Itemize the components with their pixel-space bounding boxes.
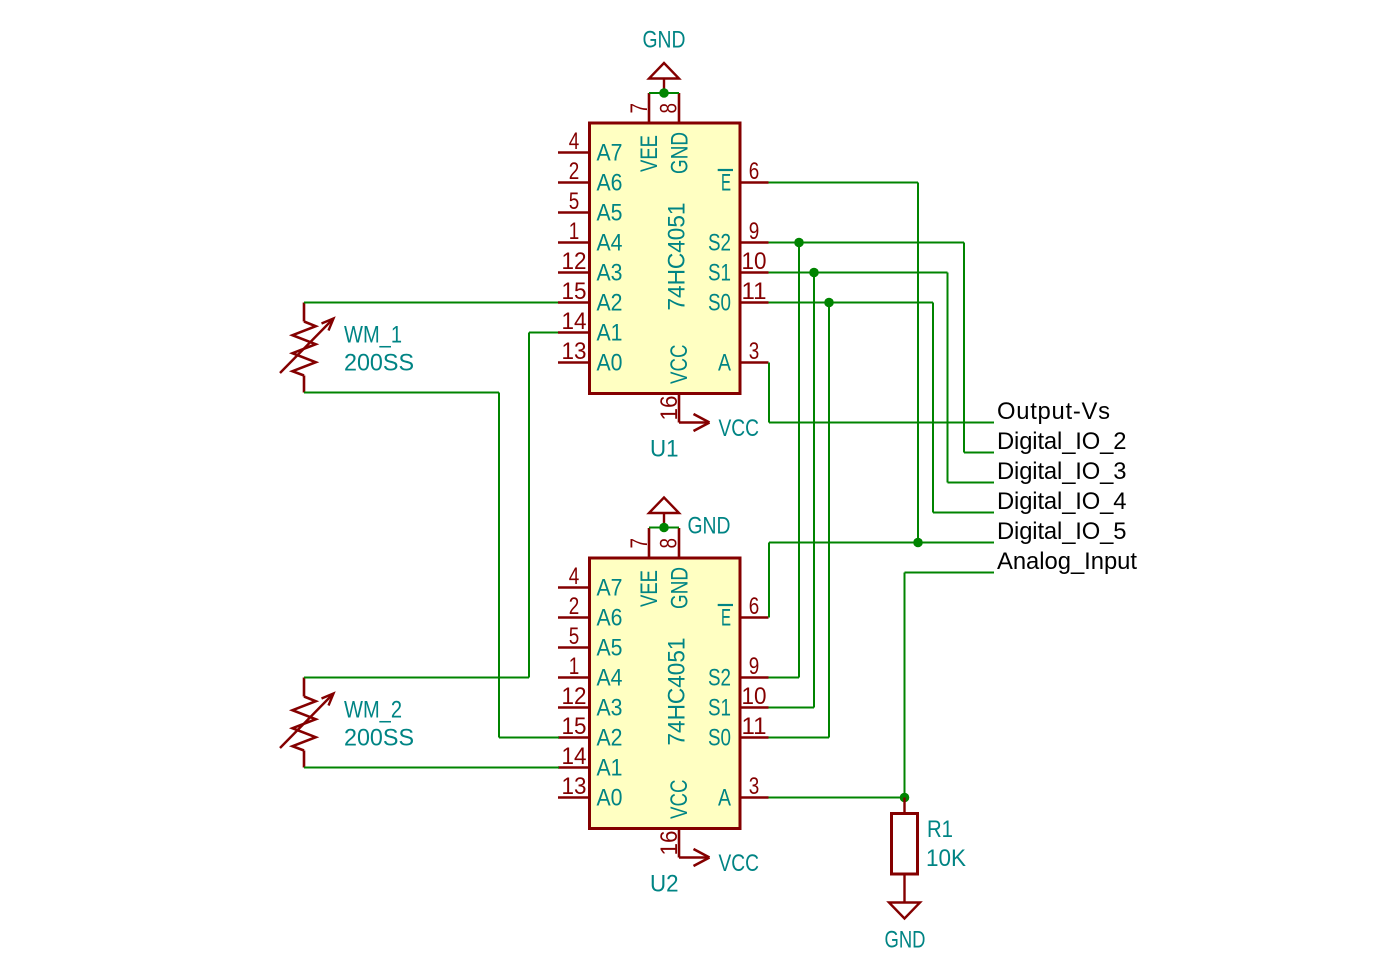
svg-text:15: 15 (562, 714, 587, 740)
svg-text:U1: U1 (650, 437, 679, 463)
svg-text:14: 14 (562, 744, 587, 770)
svg-text:VCC: VCC (719, 416, 760, 442)
svg-text:A6: A6 (597, 606, 623, 632)
svg-text:S2: S2 (708, 231, 731, 257)
svg-text:A3: A3 (597, 261, 623, 287)
svg-text:A2: A2 (597, 291, 623, 317)
svg-text:R1: R1 (927, 817, 953, 843)
svg-text:16: 16 (657, 396, 683, 421)
svg-text:12: 12 (562, 249, 587, 275)
svg-text:A0: A0 (597, 786, 623, 812)
svg-text:A7: A7 (597, 576, 623, 602)
svg-text:VEE: VEE (637, 570, 663, 607)
svg-text:VEE: VEE (637, 135, 663, 172)
svg-text:VCC: VCC (667, 345, 693, 385)
svg-text:U2: U2 (650, 872, 679, 898)
svg-text:GND: GND (688, 514, 731, 540)
svg-text:E: E (721, 606, 731, 632)
svg-text:6: 6 (749, 594, 760, 620)
svg-text:14: 14 (562, 309, 587, 335)
svg-text:7: 7 (627, 538, 653, 549)
svg-text:A7: A7 (597, 141, 623, 167)
svg-text:2: 2 (569, 159, 580, 185)
svg-text:Digital_IO_2: Digital_IO_2 (997, 428, 1127, 455)
svg-text:Digital_IO_4: Digital_IO_4 (997, 488, 1127, 515)
svg-text:12: 12 (562, 684, 587, 710)
svg-text:2: 2 (569, 594, 580, 620)
svg-text:10K: 10K (926, 846, 966, 872)
svg-text:S1: S1 (708, 696, 731, 722)
svg-text:10: 10 (742, 249, 767, 275)
svg-text:A0: A0 (597, 351, 623, 377)
svg-text:10: 10 (742, 684, 767, 710)
svg-text:GND: GND (643, 28, 686, 54)
svg-text:13: 13 (562, 339, 587, 365)
svg-text:A5: A5 (597, 636, 623, 662)
svg-text:A1: A1 (597, 756, 623, 782)
svg-text:3: 3 (749, 774, 760, 800)
svg-text:WM_1: WM_1 (344, 323, 402, 349)
svg-text:6: 6 (749, 159, 760, 185)
svg-text:74HC4051: 74HC4051 (665, 638, 691, 746)
svg-text:GND: GND (668, 567, 694, 609)
svg-text:200SS: 200SS (344, 351, 414, 377)
svg-text:S1: S1 (708, 261, 731, 287)
svg-text:A4: A4 (597, 666, 623, 692)
svg-text:A5: A5 (597, 201, 623, 227)
svg-text:8: 8 (657, 538, 683, 549)
svg-text:A6: A6 (597, 171, 623, 197)
svg-text:4: 4 (569, 129, 580, 155)
svg-text:15: 15 (562, 279, 587, 305)
svg-text:Digital_IO_3: Digital_IO_3 (997, 458, 1127, 485)
svg-text:Analog_Input: Analog_Input (997, 548, 1137, 575)
svg-text:200SS: 200SS (344, 726, 414, 752)
svg-text:1: 1 (569, 654, 580, 680)
svg-text:Output-Vs: Output-Vs (997, 398, 1110, 425)
svg-text:GND: GND (668, 132, 694, 174)
svg-text:S2: S2 (708, 666, 731, 692)
svg-text:A4: A4 (597, 231, 623, 257)
svg-text:8: 8 (657, 103, 683, 114)
svg-text:Digital_IO_5: Digital_IO_5 (997, 518, 1127, 545)
svg-text:13: 13 (562, 774, 587, 800)
svg-text:16: 16 (657, 831, 683, 856)
svg-text:5: 5 (569, 624, 580, 650)
svg-text:WM_2: WM_2 (344, 698, 402, 724)
svg-text:GND: GND (885, 928, 926, 954)
svg-text:A1: A1 (597, 321, 623, 347)
svg-text:A: A (718, 351, 731, 377)
svg-text:4: 4 (569, 564, 580, 590)
svg-text:9: 9 (749, 654, 760, 680)
svg-text:74HC4051: 74HC4051 (665, 203, 691, 311)
svg-text:E: E (721, 171, 731, 197)
svg-text:11: 11 (742, 279, 767, 305)
svg-text:9: 9 (749, 219, 760, 245)
svg-text:VCC: VCC (719, 851, 760, 877)
svg-text:A2: A2 (597, 726, 623, 752)
svg-text:1: 1 (569, 219, 580, 245)
svg-text:7: 7 (627, 103, 653, 114)
svg-text:S0: S0 (708, 291, 731, 317)
svg-text:5: 5 (569, 189, 580, 215)
svg-text:A3: A3 (597, 696, 623, 722)
svg-text:VCC: VCC (667, 780, 693, 820)
svg-text:3: 3 (749, 339, 760, 365)
svg-text:A: A (718, 786, 731, 812)
svg-text:S0: S0 (708, 726, 731, 752)
svg-text:11: 11 (742, 714, 767, 740)
